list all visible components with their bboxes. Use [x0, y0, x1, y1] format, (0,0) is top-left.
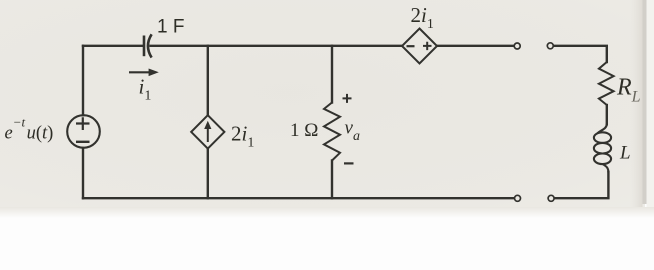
polarity minus (va): [344, 162, 354, 164]
terminal A top (open circle): [514, 43, 520, 49]
wire top-left: node top of V1 to capacitor left plate: [83, 45, 144, 47]
resistor RL zigzag: [599, 62, 614, 105]
wire top-middle: capacitor right plate to CCVS left vertex: [151, 45, 403, 47]
terminal B top (open circle): [547, 43, 553, 49]
page right edge shadow: [630, 0, 643, 207]
wire branch2 upper: top wire junction down to CCCS: [207, 46, 209, 115]
wire top-right: CCVS right vertex to terminal A: [437, 45, 514, 47]
capacitor C1 right curved plate: [148, 34, 152, 57]
F1 arrow up: [207, 127, 209, 143]
wire top-far-right: terminal B to RL corner: [554, 46, 607, 62]
terminal A bottom (open circle): [515, 195, 521, 201]
polarity plus (va): [343, 94, 352, 103]
wire bottom-right: bottom terminal B to L corner: [554, 172, 608, 198]
svg-text:1 F: 1 F: [157, 17, 184, 38]
CCCS F1 diamond (2 i1, arrow up): [191, 115, 224, 148]
wire left branch lower: V1 to bottom node: [82, 148, 84, 198]
E1 plus sign: [423, 42, 432, 50]
svg-text:1 Ω: 1 Ω: [290, 120, 318, 141]
wire left branch upper: top node down to V1: [82, 46, 84, 115]
resistor R1 (1 ohm) zigzag: [324, 103, 340, 161]
wire branch2 lower: CCCS to bottom wire: [207, 149, 209, 199]
V1 minus sign: [76, 141, 90, 143]
svg-text:L: L: [619, 143, 631, 164]
wire branch3 upper: top wire junction down to R1: [331, 46, 333, 103]
wire branch3 lower: R1 to bottom wire: [331, 161, 333, 199]
current arrow i1 (reference arrow under capacitor): [129, 69, 159, 77]
CCVS E1 diamond (2 i1, - +): [402, 29, 437, 64]
terminal B bottom (open circle): [548, 195, 554, 201]
V1 plus sign: [76, 117, 90, 130]
E1 minus sign: [407, 45, 415, 47]
capacitor C1 left plate: [143, 36, 146, 57]
voltage source V1 (independent, e^-t u(t)): [67, 115, 100, 148]
inductor L1 (coil): [594, 124, 611, 173]
wire bottom main: left corner to bottom terminal A: [83, 197, 514, 199]
wire RL-to-L segment: [606, 105, 608, 124]
